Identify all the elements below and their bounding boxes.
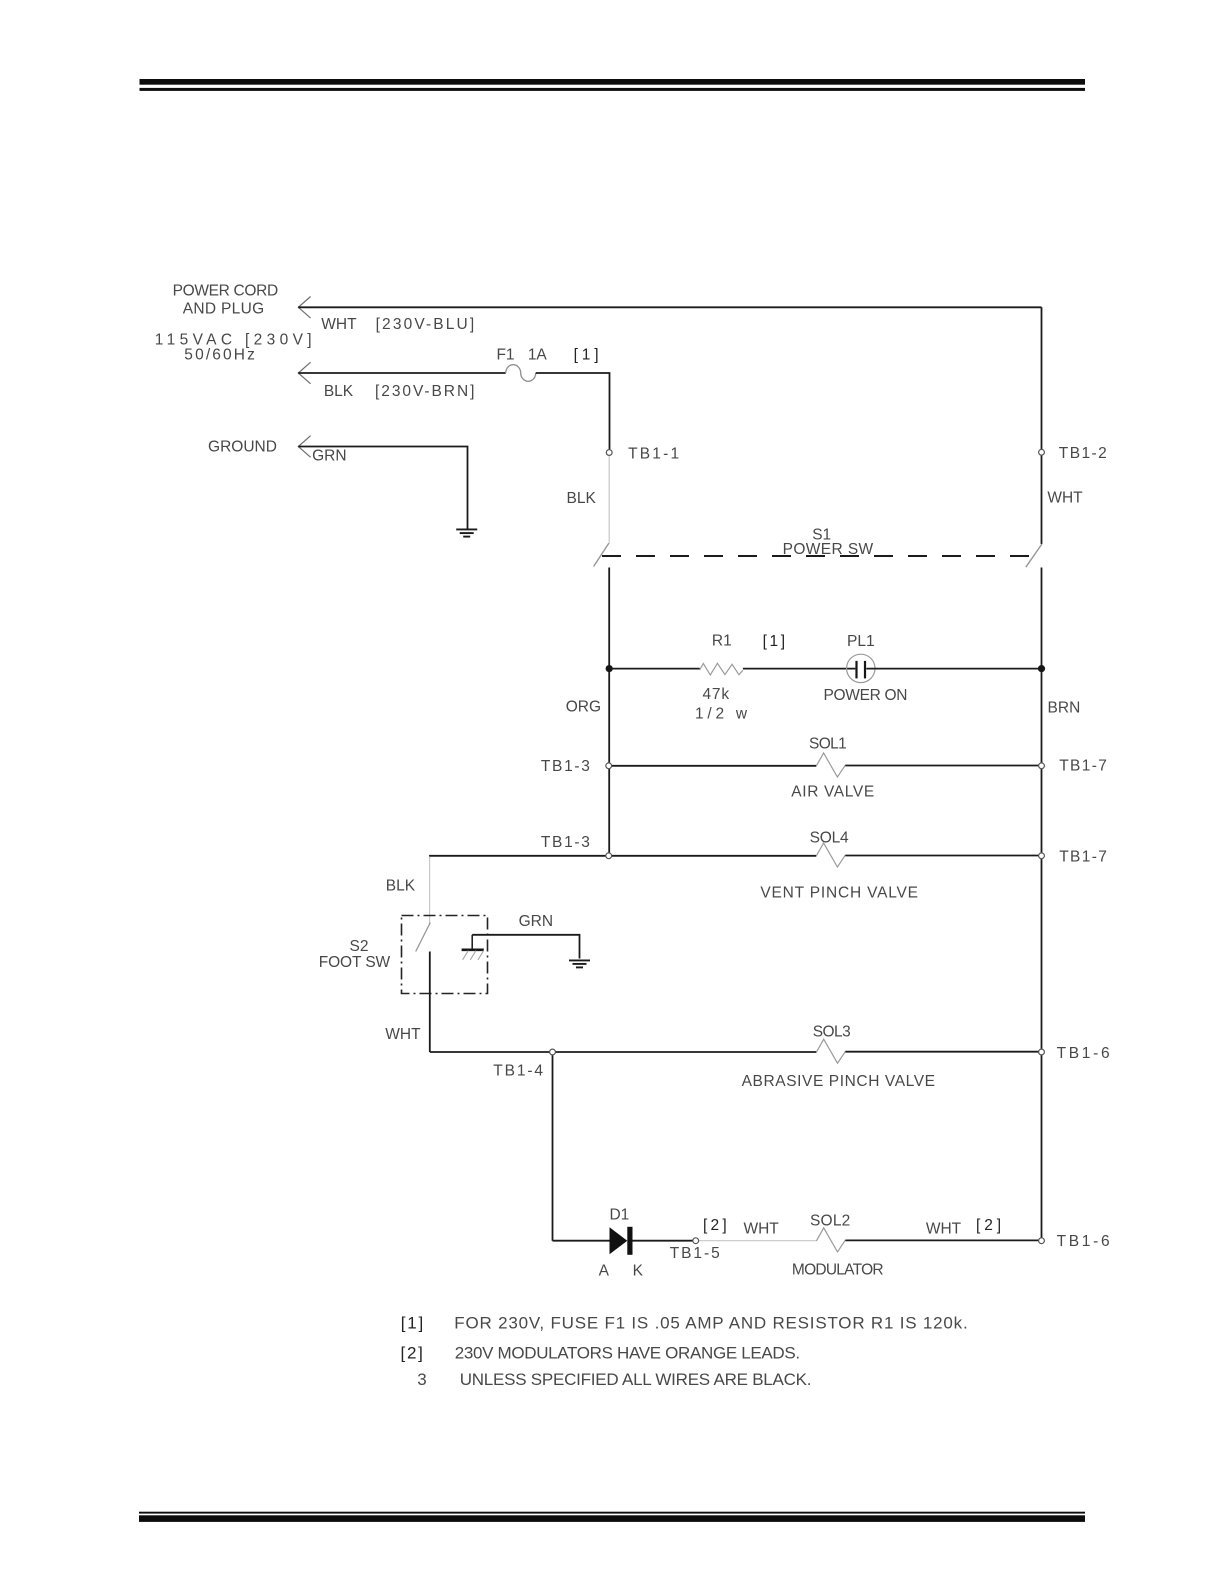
note 3 — [417, 1370, 811, 1389]
svg-text:BLK: BLK — [567, 490, 597, 507]
svg-text:WHT: WHT — [743, 1221, 779, 1238]
svg-text:VENT PINCH VALVE: VENT PINCH VALVE — [760, 884, 918, 901]
switch S2 lever — [416, 923, 431, 952]
arrow BLK line end — [298, 362, 310, 384]
lamp PL1 — [847, 654, 875, 682]
svg-text:50/60Hz: 50/60Hz — [184, 346, 255, 363]
svg-text:MODULATOR: MODULATOR — [792, 1262, 884, 1279]
svg-text:WHT: WHT — [321, 316, 357, 333]
svg-text:WHT: WHT — [385, 1026, 421, 1043]
wire left vertical S1 to SOL4 row — [608, 568, 610, 856]
svg-text:UNLESS SPECIFIED ALL WIRES ARE: UNLESS SPECIFIED ALL WIRES ARE BLACK. — [460, 1370, 812, 1389]
svg-text:ABRASIVE PINCH VALVE: ABRASIVE PINCH VALVE — [742, 1073, 935, 1090]
solenoid SOL2 — [816, 1228, 845, 1252]
svg-text:BLK: BLK — [386, 878, 416, 895]
node TB1-5 — [693, 1238, 699, 1244]
svg-text:D1: D1 — [609, 1207, 629, 1224]
svg-text:TB1-4: TB1-4 — [493, 1063, 543, 1080]
wire WHT right vertical top — [1041, 307, 1043, 449]
wire right vertical S1 to SOL2 row — [1041, 568, 1043, 1241]
svg-text:1/2 w: 1/2 w — [695, 706, 748, 723]
svg-text:R1: R1 — [712, 632, 732, 649]
svg-text:GRN: GRN — [312, 448, 346, 465]
svg-text:TB1-1: TB1-1 — [628, 445, 679, 462]
svg-text:[1]: [1] — [401, 1314, 423, 1333]
node TB1-6 SOL2 row — [1039, 1238, 1045, 1244]
svg-text:GRN: GRN — [519, 913, 553, 930]
svg-text:[2]: [2] — [976, 1217, 1001, 1234]
svg-text:TB1-6: TB1-6 — [1057, 1045, 1110, 1062]
wire GRN ground lead — [298, 447, 467, 529]
svg-text:TB1-7: TB1-7 — [1059, 849, 1107, 866]
svg-text:POWER SW: POWER SW — [783, 541, 874, 558]
solenoid SOL3 — [816, 1039, 845, 1063]
wire PL1 to right vertical — [866, 668, 1041, 670]
svg-text:SOL1: SOL1 — [809, 735, 847, 752]
wire SOL2 row left — [553, 1240, 610, 1242]
arrow GRN line end — [298, 436, 310, 458]
node TB1-2 — [1039, 449, 1045, 455]
resistor R1 — [700, 663, 743, 675]
wire BLK row to fuse — [298, 372, 505, 374]
svg-text:SOL4: SOL4 — [810, 830, 849, 847]
svg-text:3: 3 — [417, 1370, 426, 1389]
wire BLK gray drop to S2 — [429, 857, 431, 924]
wire WHT top row — [298, 306, 1041, 308]
svg-text:[2]: [2] — [703, 1217, 727, 1234]
svg-text:WHT: WHT — [1047, 489, 1083, 506]
wire SOL3 row right — [845, 1051, 1041, 1053]
svg-text:TB1-3: TB1-3 — [541, 834, 590, 851]
wire R1 to PL1 — [743, 668, 856, 670]
ground symbol earth at S2 — [569, 960, 590, 967]
solenoid SOL1 — [816, 753, 845, 777]
svg-text:TB1-7: TB1-7 — [1059, 757, 1107, 774]
wire D1 to TB1-5 — [633, 1240, 694, 1242]
switch S1 left lever — [594, 543, 609, 566]
svg-text:SOL2: SOL2 — [810, 1212, 850, 1229]
wire SOL4 row right — [845, 855, 1041, 857]
svg-text:GROUND: GROUND — [208, 439, 277, 456]
svg-text:TB1-2: TB1-2 — [1059, 445, 1107, 462]
svg-text:FOR 230V, FUSE F1 IS .05 AMP A: FOR 230V, FUSE F1 IS .05 AMP AND RESISTO… — [454, 1314, 967, 1333]
svg-text:POWER CORD: POWER CORD — [173, 283, 279, 300]
svg-text:SOL3: SOL3 — [813, 1023, 851, 1040]
svg-text:AIR VALVE: AIR VALVE — [791, 784, 874, 801]
junction dot right R1 branch — [1038, 665, 1045, 672]
svg-text:ORG: ORG — [566, 698, 601, 715]
node TB1-7 SOL1 row — [1039, 763, 1045, 769]
node TB1-6 SOL3 row — [1039, 1049, 1045, 1055]
wire right vertical TB1-2 to S1 — [1041, 456, 1043, 545]
wire BLK gray segment TB1-1 to S1 — [608, 456, 610, 544]
chassis ground in S2 — [462, 935, 484, 960]
wire SOL1 row left — [609, 765, 817, 767]
wire SOL1 row right — [845, 765, 1041, 767]
svg-text:S2: S2 — [350, 938, 369, 955]
arrow WHT line end — [298, 297, 310, 319]
svg-text:K: K — [633, 1262, 644, 1279]
svg-text:PL1: PL1 — [847, 633, 875, 650]
wire SOL4 row left — [429, 855, 816, 857]
ground symbol earth left — [456, 529, 477, 536]
wire R1 branch left — [609, 668, 700, 670]
node TB1-7 SOL4 row — [1039, 853, 1045, 859]
note 2 — [401, 1344, 801, 1363]
solenoid SOL4 — [816, 843, 845, 867]
switch S2 enclosure box — [402, 916, 488, 994]
svg-text:TB1-3: TB1-3 — [541, 758, 590, 775]
svg-text:AND PLUG: AND PLUG — [183, 301, 265, 318]
wire TB1-4 drop to SOL2 row — [552, 1052, 554, 1241]
wire SOL3 row left — [430, 1051, 817, 1053]
label POWER CORD AND PLUG 115VAC 50/60Hz — [155, 283, 312, 364]
node TB1-3 SOL4 row — [606, 853, 612, 859]
svg-text:F1: F1 — [496, 347, 514, 364]
node TB1-1 — [606, 450, 612, 456]
svg-text:BLK: BLK — [324, 383, 354, 400]
svg-text:230V MODULATORS HAVE ORANGE LE: 230V MODULATORS HAVE ORANGE LEADS. — [455, 1344, 800, 1363]
switch S1 right lever — [1026, 544, 1042, 567]
wire fuse to corner down to TB1-1 — [536, 373, 610, 449]
top border rule — [140, 79, 1086, 91]
svg-text:TB1-5: TB1-5 — [670, 1245, 720, 1262]
svg-text:[1]: [1] — [574, 347, 599, 364]
wire SOL2 to TB1-6 — [845, 1239, 1041, 1241]
svg-text:POWER ON: POWER ON — [824, 687, 908, 704]
svg-text:[1]: [1] — [763, 633, 785, 650]
svg-text:FOOT SW: FOOT SW — [319, 954, 391, 971]
svg-text:TB1-6: TB1-6 — [1057, 1233, 1110, 1250]
diode D1 — [610, 1227, 633, 1255]
node TB1-3 SOL1 row — [606, 763, 612, 769]
svg-text:BRN: BRN — [1048, 700, 1081, 717]
svg-text:47k: 47k — [703, 686, 730, 703]
wire GRN from chassis to earth — [472, 935, 579, 959]
svg-text:1A: 1A — [528, 347, 548, 364]
wire WHT gray TB1-5 to SOL2 — [698, 1240, 816, 1242]
bottom border rule — [139, 1512, 1085, 1522]
svg-text:[2]: [2] — [401, 1344, 423, 1363]
switch S1 dashed link — [602, 555, 1032, 557]
note 1 — [401, 1314, 968, 1333]
fuse F1 — [506, 365, 536, 382]
node TB1-4 — [550, 1049, 556, 1055]
wire WHT from S2 down — [429, 952, 431, 1053]
svg-text:A: A — [599, 1262, 610, 1279]
svg-text:WHT: WHT — [926, 1221, 962, 1238]
junction dot left R1 branch — [606, 665, 613, 672]
